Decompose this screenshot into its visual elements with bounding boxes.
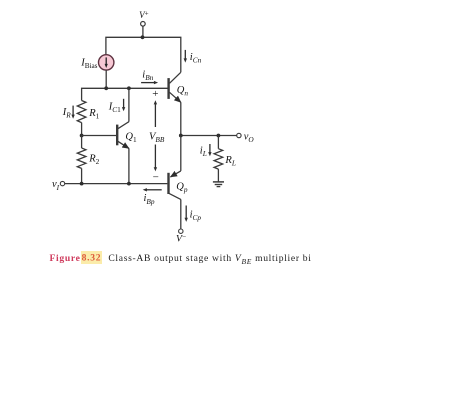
svg-text:iCn: iCn [190, 52, 202, 65]
wire mid rail [82, 88, 168, 100]
wire QP collector down [180, 199, 182, 229]
junction output at RL [217, 134, 221, 138]
wire output node to RL [217, 136, 219, 149]
transistor QN [167, 78, 169, 99]
svg-text:Qn: Qn [177, 85, 189, 98]
junction mid rail at I_Bias [104, 86, 108, 90]
wire QN emitter to output node [180, 102, 182, 135]
current source I_Bias [99, 55, 114, 70]
junction output at emitters [179, 134, 183, 138]
junction mid rail at Q1 collector [127, 86, 131, 90]
node A junction (R1/R2/Q1 base) [80, 134, 84, 138]
wire R1 to node A [81, 123, 83, 136]
caption Figure 8.32 [50, 254, 380, 267]
VBB measurement arrows [154, 104, 156, 128]
svg-text:VBB: VBB [149, 131, 165, 144]
svg-text:+: + [152, 88, 158, 100]
junction input rail at R2 [80, 182, 84, 186]
wire V+ to top rail [142, 26, 144, 37]
current arrow iL [209, 144, 211, 153]
svg-text:iBn: iBn [142, 70, 153, 83]
current arrow IR [72, 106, 74, 116]
svg-text:iBp: iBp [144, 193, 155, 206]
current arrow iCN [184, 50, 186, 59]
wire I_Bias to mid rail [105, 70, 107, 88]
ground [213, 181, 224, 183]
svg-text:vI: vI [52, 179, 60, 192]
wire RL to ground [217, 169, 219, 182]
wire QP emitter to output node [180, 136, 182, 171]
svg-text:−: − [153, 172, 159, 184]
svg-text:IBias: IBias [80, 57, 97, 70]
svg-text:Q1: Q1 [125, 132, 137, 145]
wire output rail [181, 135, 237, 137]
svg-text:R1: R1 [88, 108, 99, 121]
current arrow iCP [185, 206, 187, 219]
transistor QP [167, 173, 169, 194]
svg-text:iCp: iCp [190, 210, 202, 223]
resistor R1 [77, 101, 86, 123]
junction top rail [141, 35, 145, 39]
wire top rail [106, 37, 181, 72]
svg-text:iL: iL [200, 146, 207, 159]
wire input rail [65, 183, 168, 185]
node vO terminal [237, 133, 241, 137]
node V- terminal [179, 229, 183, 233]
node vI terminal [60, 181, 64, 185]
junction input rail at Q1 emitter [127, 182, 131, 186]
current arrow iBP [146, 189, 162, 191]
svg-text:Qp: Qp [176, 181, 188, 194]
svg-text:V+: V+ [139, 9, 149, 20]
svg-text:RL: RL [224, 155, 235, 168]
svg-text:IC1: IC1 [108, 102, 121, 115]
current arrow IC1 [123, 99, 125, 108]
svg-text:V−: V− [176, 232, 186, 244]
resistor RL [214, 149, 223, 169]
svg-text:IR: IR [62, 107, 72, 120]
current arrow iBN [141, 82, 155, 84]
wire node A to R2 [81, 136, 83, 149]
wire Q1 emitter down [128, 148, 130, 183]
svg-text:vO: vO [244, 131, 255, 144]
wire R2 to input rail [81, 168, 83, 183]
node V+ terminal [141, 22, 146, 27]
wire node A to Q1 base [82, 135, 117, 137]
wire Q1 collector up [128, 88, 130, 121]
resistor R2 [77, 148, 86, 168]
transistor Q1 [116, 125, 118, 146]
svg-text:R2: R2 [88, 153, 99, 166]
